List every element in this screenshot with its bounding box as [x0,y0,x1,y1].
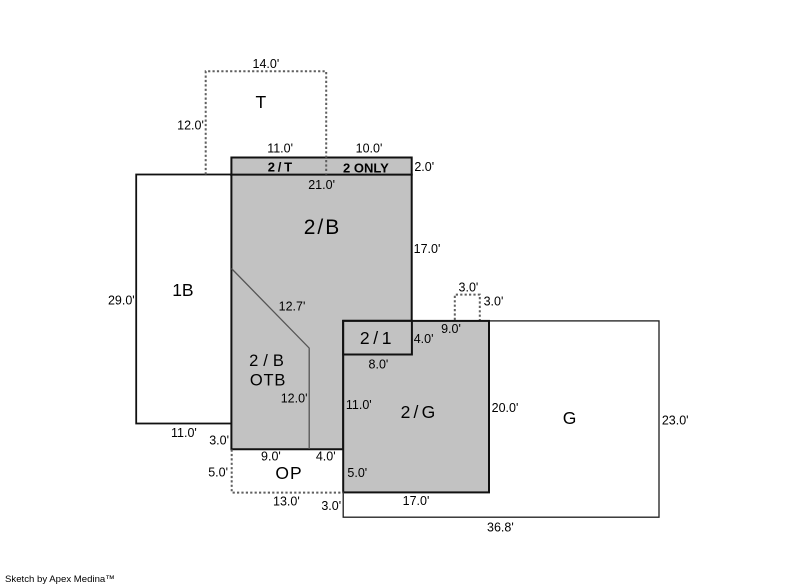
svg-text:3.0': 3.0' [209,434,229,448]
svg-text:12.0': 12.0' [177,118,204,132]
svg-text:OP: OP [275,463,302,483]
svg-text:G: G [563,408,577,428]
svg-text:20.0': 20.0' [492,401,519,415]
svg-text:2/G: 2/G [401,402,439,422]
svg-text:4.0': 4.0' [316,449,336,463]
svg-text:3.0': 3.0' [321,499,341,513]
svg-text:5.0': 5.0' [347,466,367,480]
svg-text:23.0': 23.0' [662,413,689,427]
svg-text:10.0': 10.0' [356,141,383,155]
svg-text:2/T: 2/T [268,159,295,174]
svg-text:9.0': 9.0' [441,322,461,336]
svg-text:3.0': 3.0' [484,295,504,309]
svg-text:2/B: 2/B [249,352,289,370]
svg-text:4.0': 4.0' [414,332,434,346]
svg-text:2/1: 2/1 [360,328,395,348]
svg-text:2/B: 2/B [304,216,342,239]
svg-text:17.0': 17.0' [414,242,441,256]
svg-text:T: T [256,92,267,112]
svg-text:5.0': 5.0' [208,466,228,480]
svg-text:2.0': 2.0' [414,160,434,174]
svg-text:2 ONLY: 2 ONLY [343,160,389,175]
svg-text:29.0': 29.0' [108,293,135,307]
svg-text:11.0': 11.0' [346,398,372,412]
svg-text:1B: 1B [172,280,193,300]
svg-text:Sketch by Apex Medina™: Sketch by Apex Medina™ [5,574,115,585]
svg-text:17.0': 17.0' [403,494,430,508]
svg-text:21.0': 21.0' [308,178,335,192]
svg-text:3.0': 3.0' [459,281,479,295]
svg-text:12.0': 12.0' [281,392,308,406]
svg-text:OTB: OTB [250,371,286,389]
svg-text:12.7': 12.7' [279,300,306,314]
svg-text:8.0': 8.0' [369,357,389,371]
svg-text:9.0': 9.0' [261,449,281,463]
svg-text:11.0': 11.0' [267,141,293,155]
svg-text:36.8': 36.8' [487,521,514,535]
svg-text:13.0': 13.0' [273,494,300,508]
svg-text:14.0': 14.0' [253,57,280,71]
svg-text:11.0': 11.0' [171,426,197,440]
